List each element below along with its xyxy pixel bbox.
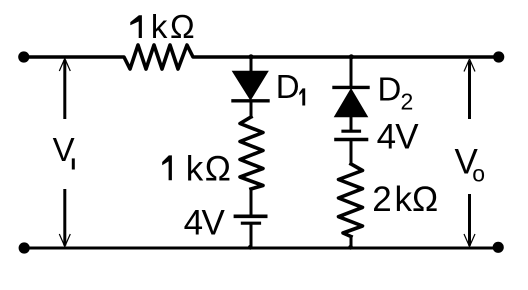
svg-text:4V: 4V [377,118,420,157]
svg-text:V: V [53,131,75,168]
svg-text:4V: 4V [184,204,226,243]
svg-text:kΩ: kΩ [186,149,231,188]
svg-text:2kΩ: 2kΩ [372,180,438,219]
svg-text:kΩ: kΩ [151,8,195,45]
svg-text:D: D [276,68,300,105]
